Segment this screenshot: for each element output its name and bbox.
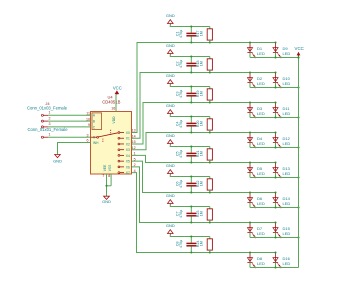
svg-text:GND: GND: [166, 193, 175, 198]
svg-text:GND: GND: [53, 159, 62, 164]
svg-text:12: 12: [132, 146, 136, 150]
svg-text:GND: GND: [166, 103, 175, 108]
svg-text:D5: D5: [257, 166, 263, 171]
svg-text:16: 16: [111, 106, 115, 110]
svg-text:LED: LED: [257, 111, 265, 116]
svg-text:U4: U4: [107, 95, 113, 100]
svg-text:GND: GND: [166, 13, 175, 18]
svg-text:D8: D8: [257, 256, 263, 261]
svg-text:LED: LED: [283, 231, 291, 236]
svg-text:470µ: 470µ: [179, 120, 183, 128]
svg-text:INH: INH: [93, 141, 99, 145]
svg-text:D15: D15: [283, 226, 291, 231]
svg-text:D16: D16: [283, 256, 291, 261]
svg-text:X7: X7: [126, 171, 130, 175]
svg-text:D1: D1: [257, 46, 263, 51]
svg-text:11: 11: [86, 112, 90, 116]
svg-text:470µ: 470µ: [179, 180, 183, 188]
svg-text:D11: D11: [283, 106, 291, 111]
svg-text:Conn_01x01_Female: Conn_01x01_Female: [27, 127, 68, 132]
svg-text:GND: GND: [166, 133, 175, 138]
svg-text:X0: X0: [126, 131, 130, 135]
svg-text:LED: LED: [257, 261, 265, 266]
svg-text:1: 1: [49, 111, 51, 115]
svg-text:GND: GND: [166, 73, 175, 78]
svg-text:VSS: VSS: [108, 164, 112, 171]
svg-text:1: 1: [49, 133, 51, 137]
svg-text:LED: LED: [257, 81, 265, 86]
svg-text:X5: X5: [126, 160, 130, 164]
svg-text:LED: LED: [283, 261, 291, 266]
svg-text:1: 1: [134, 152, 136, 156]
svg-text:1M: 1M: [199, 121, 203, 126]
svg-text:GND: GND: [166, 43, 175, 48]
svg-text:8: 8: [108, 174, 110, 178]
svg-text:LED: LED: [257, 201, 265, 206]
svg-text:4: 4: [134, 169, 136, 173]
svg-text:X6: X6: [126, 165, 130, 169]
svg-text:3: 3: [49, 122, 51, 126]
svg-text:2: 2: [49, 116, 51, 120]
svg-text:X4: X4: [126, 154, 130, 158]
svg-text:CD4051B: CD4051B: [102, 100, 120, 105]
svg-text:D2: D2: [257, 76, 263, 81]
svg-text:10: 10: [86, 117, 90, 121]
svg-text:VCC: VCC: [295, 46, 304, 51]
svg-text:9: 9: [88, 123, 90, 127]
svg-text:Conn_01x03_Female: Conn_01x03_Female: [27, 105, 68, 110]
svg-text:470µ: 470µ: [179, 90, 183, 98]
svg-text:1M: 1M: [199, 211, 203, 216]
svg-text:X3: X3: [126, 148, 130, 152]
svg-text:VCC: VCC: [113, 86, 122, 91]
svg-text:D13: D13: [283, 166, 291, 171]
svg-text:1M: 1M: [199, 241, 203, 246]
svg-text:1M: 1M: [199, 151, 203, 156]
svg-text:D6: D6: [257, 196, 263, 201]
svg-text:470µ: 470µ: [179, 210, 183, 218]
svg-text:B: B: [93, 120, 95, 124]
svg-text:LED: LED: [283, 51, 291, 56]
svg-text:14: 14: [132, 134, 136, 138]
svg-text:LED: LED: [257, 141, 265, 146]
svg-text:LED: LED: [283, 201, 291, 206]
svg-text:1M: 1M: [199, 181, 203, 186]
svg-text:GND: GND: [102, 199, 111, 204]
svg-text:D12: D12: [283, 136, 291, 141]
svg-text:D14: D14: [283, 196, 291, 201]
svg-text:1M: 1M: [199, 91, 203, 96]
svg-text:D10: D10: [283, 76, 291, 81]
svg-text:15: 15: [132, 140, 136, 144]
svg-text:LED: LED: [283, 171, 291, 176]
svg-text:13: 13: [132, 129, 136, 133]
svg-text:1M: 1M: [199, 31, 203, 36]
svg-text:GND: GND: [166, 223, 175, 228]
svg-text:1M: 1M: [199, 61, 203, 66]
svg-text:LED: LED: [257, 51, 265, 56]
svg-text:D7: D7: [257, 226, 263, 231]
svg-text:LED: LED: [283, 81, 291, 86]
svg-text:470µ: 470µ: [179, 30, 183, 38]
svg-text:7: 7: [102, 174, 104, 178]
svg-text:GND: GND: [166, 163, 175, 168]
svg-text:5: 5: [134, 157, 136, 161]
svg-text:470µ: 470µ: [179, 150, 183, 158]
svg-text:LED: LED: [283, 111, 291, 116]
svg-text:D3: D3: [257, 106, 263, 111]
svg-text:LED: LED: [283, 141, 291, 146]
svg-text:3: 3: [87, 133, 89, 137]
svg-text:VDD: VDD: [112, 116, 116, 124]
svg-text:LED: LED: [257, 171, 265, 176]
svg-text:6: 6: [87, 139, 89, 143]
svg-text:LED: LED: [257, 231, 265, 236]
svg-text:470µ: 470µ: [179, 240, 183, 248]
svg-text:X2: X2: [126, 142, 130, 146]
svg-text:2: 2: [134, 163, 136, 167]
svg-text:VEE: VEE: [103, 164, 107, 171]
svg-text:D9: D9: [283, 46, 289, 51]
svg-text:470µ: 470µ: [179, 60, 183, 68]
svg-text:D4: D4: [257, 136, 263, 141]
svg-text:X1: X1: [126, 137, 130, 141]
